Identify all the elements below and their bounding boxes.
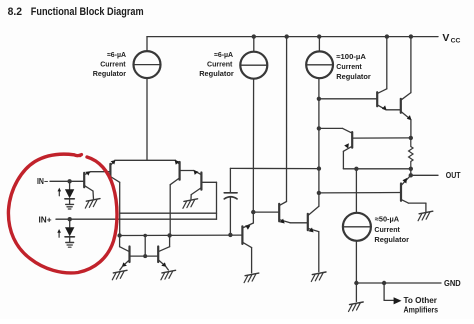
wire Q8 emitter to Q9 base	[290, 222, 308, 224]
svg-text:GND: GND	[444, 279, 461, 288]
current arrow at D2	[58, 232, 60, 237]
wire OUT stub	[410, 169, 412, 176]
svg-text:≈6-µA: ≈6-µA	[214, 50, 234, 59]
wire input tail	[115, 159, 176, 161]
diode D1 (IN- clamp)	[69, 181, 71, 189]
node 50uA tap	[354, 167, 358, 171]
current regulator CR2 (~6uA)	[240, 52, 267, 79]
wire mirror base bus	[130, 255, 159, 257]
svg-text:Regulator: Regulator	[374, 235, 409, 244]
svg-text:Current: Current	[336, 62, 362, 71]
current regulator CR1 (~6uA)	[134, 51, 161, 78]
node OUT label	[446, 171, 461, 180]
node bus junction C	[317, 166, 321, 170]
transistor Q3 (IN+ darlington PNP)	[179, 162, 181, 180]
node rail junction Q11	[409, 34, 413, 38]
node IN- label	[37, 177, 48, 186]
node IN- junction	[67, 179, 71, 183]
node bus junction D	[317, 191, 321, 195]
svg-text:Current: Current	[374, 225, 400, 234]
transistor Q7 (second stage clamp PNP)	[241, 226, 243, 244]
transistor Q10 (output darlington NPN a)	[376, 92, 378, 106]
node rail junction Q10	[385, 34, 389, 38]
wire VCC top rail	[147, 36, 438, 38]
wire IN+ lead	[56, 218, 217, 220]
ground (chassis) main	[350, 302, 364, 305]
transistor Q9 (second stage gain NPN)	[307, 214, 309, 230]
wire Q2 collector to mirror	[119, 182, 121, 235]
node GND junction	[354, 281, 358, 285]
node VCC label	[442, 32, 460, 44]
wire CR2 line into Q7 emitter	[252, 212, 254, 223]
ground (chassis) Q1 collector	[86, 199, 100, 202]
node mirror base tap	[143, 254, 147, 258]
ground (earth) under D1	[66, 203, 74, 205]
current regulator CR3 (~100uA)	[306, 51, 333, 78]
node mirror tap junction	[143, 234, 147, 238]
wire GND rail	[356, 282, 441, 284]
ground (earth) under D2	[66, 242, 74, 244]
svg-text:CC: CC	[451, 38, 461, 45]
annotation red circle	[8, 154, 117, 273]
ground (chassis) Q7 collector	[245, 273, 259, 276]
svg-text:To Other: To Other	[404, 296, 438, 305]
current arrow at D1	[58, 191, 60, 196]
node IN+ label	[39, 215, 52, 224]
resistor R1	[409, 138, 413, 169]
svg-text:≈50-µA: ≈50-µA	[375, 215, 400, 224]
transistor Q4 (IN+ input PNP)	[200, 173, 202, 190]
node mirror left junction	[117, 233, 121, 237]
svg-text:8.2: 8.2	[8, 6, 22, 18]
transistor Q8 (second stage NPN follower)	[278, 204, 280, 222]
ground (chassis) Q9 emitter	[312, 272, 326, 275]
svg-text:Regulator: Regulator	[199, 69, 234, 78]
wire rail to CR2 top	[253, 37, 255, 52]
current regulator CR4 (~50uA)	[355, 169, 357, 213]
transistor Q6 (mirror right NPN)	[157, 247, 159, 263]
wire CR1 bottom to input tail	[146, 78, 148, 160]
node bus junction B	[317, 126, 321, 130]
wire CR3 bottom bus	[318, 78, 320, 206]
svg-text:Functional Block Diagram: Functional Block Diagram	[31, 6, 144, 18]
wire rail junction to second-stage follower	[285, 34, 289, 38]
node second stage junction	[251, 210, 255, 214]
wire mirror top bus	[120, 234, 243, 236]
wire Q4 base riser	[201, 181, 216, 183]
wire link line	[120, 212, 217, 214]
node resistor bottom	[409, 167, 413, 171]
ground (chassis) Q5 emitter	[113, 270, 127, 273]
wire GND to chassis	[355, 283, 357, 302]
wire Q1 emitter to Q2 base	[91, 171, 111, 173]
ground (chassis) Q4 collector	[184, 199, 198, 202]
ground (chassis) Q6 emitter	[162, 270, 176, 273]
wire CR2 bottom down to second stage	[252, 79, 254, 212]
wire Q3 collector to mirror	[169, 185, 171, 236]
svg-text:IN+: IN+	[39, 215, 52, 224]
svg-text:Amplifiers: Amplifiers	[404, 306, 439, 315]
node capacitor bottom junction	[228, 233, 232, 237]
svg-text:Current: Current	[100, 60, 126, 69]
wire Q3 base to Q4 emitter	[180, 170, 194, 172]
node bus junction A	[317, 97, 321, 101]
wire IN- lead	[50, 180, 84, 182]
svg-text:V: V	[442, 32, 449, 44]
transistor Q1 (IN- input PNP)	[83, 173, 85, 187]
transistor Q2 (IN- darlington PNP)	[109, 164, 111, 178]
svg-text:≈6-µA: ≈6-µA	[107, 50, 126, 59]
wire output node	[343, 168, 410, 170]
svg-text:≈100-µA: ≈100-µA	[336, 52, 366, 61]
transistor Q5 (mirror left NPN)	[128, 247, 130, 263]
node Q11 emitter junction	[409, 136, 413, 140]
ground (chassis) Q13	[419, 211, 433, 214]
transistor Q11 (output darlington NPN b)	[400, 99, 402, 113]
node GND label	[444, 279, 461, 288]
svg-text:Regulator: Regulator	[93, 69, 126, 78]
capacitor C1 (compensation)	[230, 167, 319, 169]
node IN+ junction	[68, 217, 72, 221]
diode D2 (IN+ clamp)	[69, 219, 71, 227]
svg-text:Current: Current	[207, 60, 233, 69]
wire rail to CR1 top	[146, 37, 148, 52]
wire to other amplifiers	[382, 281, 386, 285]
svg-text:OUT: OUT	[446, 171, 461, 180]
wire rail to CR3 top	[317, 34, 321, 38]
title	[8, 6, 144, 18]
node rail junction CR2	[252, 34, 256, 38]
svg-text:IN−: IN−	[37, 177, 48, 186]
node mirror right junction	[167, 233, 171, 237]
transistor Q13 (output pulldown)	[400, 184, 402, 201]
svg-text:Regulator: Regulator	[336, 72, 371, 81]
transistor Q12 (output PNP)	[351, 132, 353, 148]
